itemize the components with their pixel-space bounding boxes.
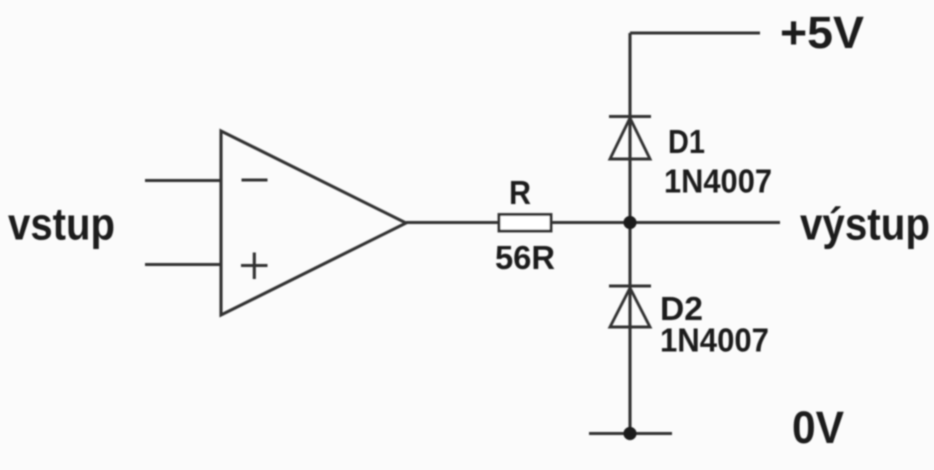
- wire vertical rail: [628, 33, 631, 434]
- svg-text:výstup: výstup: [800, 199, 930, 250]
- minus symbol (inverting pin): [242, 178, 268, 181]
- svg-text:0V: 0V: [792, 402, 844, 453]
- wire inverting input: [145, 179, 221, 182]
- svg-text:56R: 56R: [495, 239, 555, 276]
- diode D1: [609, 117, 651, 160]
- node junction 0V: [623, 427, 636, 440]
- svg-text:vstup: vstup: [8, 199, 115, 250]
- node junction output: [623, 216, 636, 229]
- wire non-inverting input: [145, 263, 221, 266]
- op-amp U1: [221, 131, 406, 315]
- diode D2: [609, 286, 651, 327]
- wire 0V rail: [589, 432, 672, 435]
- wire +5V rail: [630, 31, 760, 34]
- wire resistor to output: [551, 221, 780, 224]
- svg-text:+5V: +5V: [780, 7, 864, 58]
- resistor R: [499, 215, 551, 232]
- svg-text:1N4007: 1N4007: [660, 322, 769, 359]
- svg-text:D1: D1: [668, 123, 705, 160]
- wire op-amp output to resistor: [406, 221, 499, 224]
- plus symbol (non-inverting pin): [241, 253, 268, 280]
- svg-text:1N4007: 1N4007: [664, 163, 772, 200]
- svg-text:R: R: [509, 174, 531, 211]
